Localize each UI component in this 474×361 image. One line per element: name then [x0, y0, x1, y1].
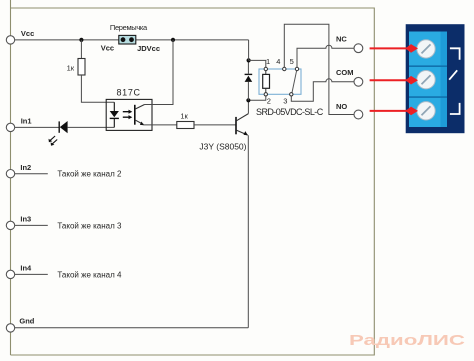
terminal Gnd	[6, 316, 35, 332]
node junction diode top / Vcc corner / relay pin1	[247, 58, 251, 62]
svg-text:COM: COM	[336, 68, 354, 77]
wire In2 stub	[15, 173, 48, 175]
svg-text:5: 5	[290, 57, 294, 66]
svg-text:In3: In3	[20, 215, 31, 224]
svg-text:In4: In4	[20, 264, 32, 273]
svg-text:3: 3	[283, 97, 287, 106]
diode D1 flyback	[245, 60, 253, 100]
svg-text:Vcc: Vcc	[21, 29, 34, 38]
svg-text:2: 2	[267, 97, 271, 106]
red arrow COM to terminal block	[370, 76, 418, 85]
wire from Vcc junction down to R1	[80, 40, 82, 59]
red arrow NC to terminal block	[370, 44, 418, 53]
svg-text:1к: 1к	[67, 64, 75, 73]
svg-text:Такой же канал 3: Такой же канал 3	[57, 221, 122, 230]
svg-text:NC: NC	[336, 35, 347, 44]
wire relay pin 2 to junction	[251, 96, 266, 100]
wire Vcc rail corner down to junction	[248, 40, 250, 61]
svg-text:JDVcc: JDVcc	[137, 44, 160, 53]
wire opto emitter to R2	[144, 124, 177, 126]
wire emitter down to Gnd rail	[247, 135, 249, 328]
wire Vcc rail	[15, 39, 249, 41]
svg-text:J3Y (S8050): J3Y (S8050)	[199, 142, 246, 152]
transistor Q1 J3Y (S8050)	[199, 101, 248, 152]
jumper Перемычка (Vcc-JDVcc)	[101, 23, 160, 53]
svg-text:Gnd: Gnd	[19, 316, 34, 325]
svg-text:Перемычка: Перемычка	[110, 23, 148, 32]
node junction on Vcc rail for R1	[79, 38, 83, 42]
wire In4 stub	[15, 273, 48, 275]
svg-text:Vcc: Vcc	[101, 43, 114, 52]
wire Gnd rail	[15, 327, 249, 329]
LED D2 indicator on In1 line	[49, 121, 68, 146]
terminal COM	[336, 68, 363, 86]
node junction on Vcc rail for optocoupler collector	[171, 38, 175, 42]
svg-text:NO: NO	[336, 102, 347, 111]
wire relay pin 3 to COM (hop over vertical)	[291, 79, 354, 101]
wire from R1 to opto LED anode	[81, 75, 114, 102]
wire In1 from terminal to indicator LED	[15, 126, 59, 128]
svg-text:817C: 817C	[117, 88, 141, 98]
terminal NO	[336, 102, 363, 119]
svg-text:In1: In1	[21, 116, 32, 125]
svg-text:Такой же канал 4: Такой же канал 4	[57, 270, 122, 279]
svg-text:4: 4	[276, 57, 280, 66]
wire from indicator LED to opto LED cathode	[68, 126, 115, 128]
wire relay pin 4 over the top and down to NO	[284, 24, 354, 114]
node junction collector / diode / relay pin2	[246, 98, 250, 102]
svg-text:Такой же канал 2: Такой же канал 2	[57, 170, 122, 179]
terminal In4	[6, 264, 32, 279]
optocoupler U1 817C	[106, 88, 152, 131]
wire relay pin 5 to NC (hop over vertical)	[297, 45, 354, 67]
svg-text:РадиоЛИС: РадиоЛИС	[349, 332, 465, 349]
red arrow NO to terminal block	[370, 107, 418, 116]
svg-text:In2: In2	[20, 163, 31, 172]
relay K1 SRD-05VDC-SL-C	[256, 57, 324, 117]
svg-text:SRD-05VDC-SL-C: SRD-05VDC-SL-C	[256, 107, 324, 117]
terminal In3	[6, 215, 31, 230]
wire opto collector up to Vcc rail	[145, 40, 174, 105]
svg-text:1: 1	[266, 57, 270, 66]
resistor R1 1k (vertical)	[67, 59, 85, 76]
terminal block (screw connector picture)	[406, 24, 465, 133]
wire R2 to transistor base	[194, 124, 236, 126]
terminal NC	[336, 35, 363, 53]
terminal In1	[6, 116, 31, 131]
wire In3 stub	[15, 224, 48, 226]
terminal In2	[6, 163, 31, 178]
resistor R2 1k (horizontal)	[177, 112, 194, 129]
wire junction to relay pin 1	[249, 60, 266, 67]
svg-text:1к: 1к	[180, 112, 188, 121]
terminal Vcc	[6, 29, 34, 44]
